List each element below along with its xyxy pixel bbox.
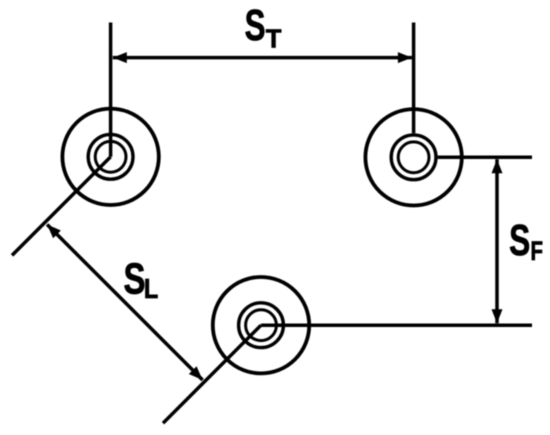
svg-text:L: L [144,274,158,304]
svg-text:S: S [509,217,530,265]
svg-text:S: S [245,1,266,49]
svg-text:S: S [124,255,146,304]
svg-text:F: F [531,236,543,266]
svg-text:T: T [266,25,282,53]
